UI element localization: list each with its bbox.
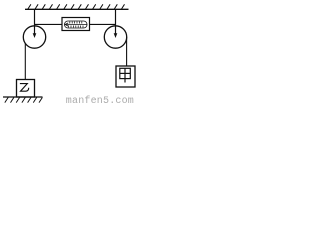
right rod arrowhead at pulley center: [114, 33, 118, 38]
block jia (right, hanging): [116, 66, 135, 87]
glyph: Chinese character jia (outer box): [120, 68, 131, 78]
spring coil ticks (top row): [70, 22, 82, 24]
string: left pulley to spring scale: [35, 23, 63, 25]
left rod arrowhead at pulley center: [33, 33, 37, 38]
glyph jia middle horizontal stroke: [120, 72, 131, 74]
string: left pulley down to block yi: [24, 44, 26, 80]
block yi (left, on ground): [17, 80, 35, 98]
ceiling line: [25, 8, 129, 10]
right pulley support rod: [115, 10, 117, 34]
ground line under block yi: [3, 96, 43, 98]
ceiling hatching: [28, 4, 125, 9]
spring coil ticks (bottom row): [69, 26, 83, 28]
pointer arrowhead (points left): [65, 23, 68, 26]
glyph jia vertical stem: [124, 68, 126, 82]
right pulley wheel: [104, 26, 126, 48]
string: spring scale to right pulley: [90, 23, 116, 25]
spring scale outer case: [62, 18, 90, 31]
ground hatching: [5, 97, 43, 102]
spring scale inner capsule: [65, 21, 88, 28]
pointer shaft inside scale: [65, 24, 87, 26]
glyph: Chinese character yi: [20, 84, 29, 92]
left pulley support rod: [34, 10, 36, 34]
string: right pulley down to block jia: [126, 37, 128, 66]
svg-text:manfen5.com: manfen5.com: [66, 95, 134, 106]
left pulley wheel: [23, 26, 45, 48]
